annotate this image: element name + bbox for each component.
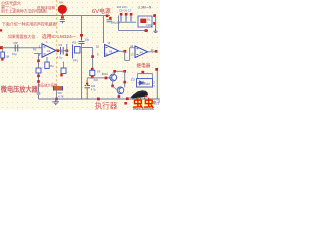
wire left drop [118,16,120,31]
wire opamp1 output [56,50,60,52]
ground symbol [52,100,59,105]
pad e1 [111,85,114,88]
wire to opamp2 [80,47,93,49]
capacitor C3 stub [63,62,65,69]
pad output14 [155,50,158,53]
svg-text:10: 10 [96,45,100,49]
capacitor C1 [15,45,18,52]
wire op2out drop [124,51,126,60]
pad on bus right [126,97,129,100]
beetle tail light [145,95,147,97]
op-amp U1C [105,41,119,57]
capacitor C3 box [61,68,66,74]
wire stub left [137,74,139,79]
relay coil [140,19,146,23]
pad cap top [86,83,88,85]
node pad [145,29,148,32]
dashed segment lower [86,80,88,99]
svg-text:4.7μ: 4.7μ [57,56,63,60]
beetle shadow [128,96,139,99]
pad e2 [118,95,121,98]
transistor Q2 [117,87,124,94]
pad cap3 [130,13,133,16]
svg-text:R3: R3 [73,41,77,45]
capacitor C2 [60,47,63,55]
svg-text:9014: 9014 [102,72,108,76]
wire stub to pin12 [130,47,135,49]
potentiometer RP1 [72,45,74,59]
svg-text:继电器: 继电器 [137,62,151,69]
svg-text:CRQ: CRQ [146,23,153,27]
svg-text:R8: R8 [97,69,101,73]
relay K1 box [138,16,152,27]
svg-text:MK: MK [59,0,63,4]
pad on trimmer stem [91,55,94,58]
svg-text:1M: 1M [5,55,10,59]
op-amp U1D [135,46,148,58]
pad on drop [123,81,126,84]
pad c1 [113,70,116,73]
pad above diode box [141,71,144,74]
microphone MK1 [58,5,67,14]
svg-text:驻极体话筒: 驻极体话筒 [37,5,55,10]
svg-text:4.7K: 4.7K [58,94,64,98]
beetle wing line [135,92,146,95]
svg-text:A3: A3 [109,50,113,54]
svg-text:如果需要放大倍: 如果需要放大倍 [8,34,35,39]
transistor Q1 [110,74,117,81]
small mark [153,29,157,33]
wire long vertical mid [81,44,83,99]
pad below trimmer [37,75,40,78]
wire mic stem [61,14,63,17]
wire filter rail [119,21,137,23]
capacitor C plates [79,42,85,44]
svg-text:4.7μ: 4.7μ [91,88,97,92]
wire base q2 [113,86,118,90]
svg-text:A1: A1 [47,49,51,53]
svg-text:C2: C2 [59,43,63,47]
pad on feedback [37,60,40,63]
pad below trimmer [91,76,94,79]
wire R9 to bus [56,90,58,99]
wire right vertical cyan [155,16,157,31]
svg-text:第一○二: 第一○二 [1,3,15,9]
svg-text:www.sochips: www.sochips [133,107,154,110]
svg-text:Y: Y [153,84,155,88]
svg-text:10μ: 10μ [85,38,90,42]
wire vertical from rail left-mid [81,16,83,35]
wire emitter q1 [112,81,114,87]
svg-text:4148: 4148 [144,82,150,86]
watermark beetle body [130,90,148,98]
pad cap2 [125,13,128,16]
wire stub up [66,44,68,55]
wire diode top [138,73,153,75]
filter cap bodies [121,16,131,22]
pad on base rail [105,77,108,80]
svg-text:电子: 电子 [153,99,160,105]
diode symbol [138,81,146,85]
svg-text:微电压放大器: 微电压放大器 [0,84,39,93]
wire stub right [151,74,153,79]
pad R9 bus [55,98,58,101]
svg-text:604: 604 [94,78,99,82]
pad left edge mid [0,29,2,31]
electrolytic capacitor C4 [106,15,109,18]
trimmer RP3 [90,70,95,75]
pad top right [153,14,156,17]
wire collector rail [114,70,124,72]
svg-text:R4: R4 [50,64,54,68]
wire to cluster [63,50,68,52]
junction node [66,49,69,52]
resistor R9 [53,87,63,91]
svg-text:3.3M—N: 3.3M—N [138,5,152,9]
wire opamp2 output [119,50,125,52]
node pad on vertical [80,34,83,37]
svg-text:C5 C6 C7: C5 C6 C7 [119,9,132,13]
pad above trimmer [91,68,94,70]
svg-text:C1: C1 [14,41,18,45]
pad below C3 [60,74,62,76]
svg-text:10μ: 10μ [12,52,17,56]
svg-text:HL: HL [147,18,151,22]
trimmer stem [92,48,94,70]
resistor R4 below opamp1 [46,57,48,62]
diode D1 box [137,79,153,87]
svg-text:执行器: 执行器 [95,100,118,110]
op-amp U1A [39,40,56,57]
junction blob [37,91,41,95]
svg-text:A4: A4 [140,51,144,55]
pad on feedback lower [37,80,40,83]
wire vertical to opamp2 [103,16,105,44]
wire top supply rail [0,15,110,17]
wire riser [129,48,131,61]
pad below mic [61,16,64,18]
wire elbow [125,59,130,61]
capacitor C7 to ground [86,78,88,85]
pad right rail top [155,68,158,71]
pad on bus [97,98,100,101]
wire base rail [87,77,110,79]
polarized capacitor segment [81,37,83,41]
wire emitter q2 [118,94,120,100]
pad R1 bottom [1,58,3,60]
wire feedback vertical [38,54,40,100]
wire ground bus [39,98,161,100]
svg-text:103: 103 [91,84,96,88]
pad c2 [123,70,126,73]
pad stub bottom [66,54,68,56]
pad below bus [124,102,127,105]
svg-text:选用IC LM324—: 选用IC LM324— [42,33,77,40]
capacitor C0 below mic [60,20,65,24]
input pad J1 [0,46,3,49]
wire opamp3 output [148,51,156,53]
svg-text:RP1: RP1 [73,59,79,63]
wire right rail to bus [156,69,158,99]
trimmer RP2 on feedback [36,68,41,73]
resistor R1 to ground [2,49,4,52]
pad mid right [153,22,156,25]
svg-text:下面介绍一种实用的声控电路图: 下面介绍一种实用的声控电路图 [2,22,57,27]
wire collector drop [124,71,126,87]
wire noninverting stub [34,53,42,55]
beetle leg marks [132,97,145,99]
svg-text:6V电源: 6V电源 [92,7,111,15]
pad cap1 [120,13,123,16]
wire lower rail [119,30,149,32]
pad output [124,50,127,53]
wire collector up [113,71,115,74]
wire input [2,47,42,49]
section divider dashed line [56,0,58,99]
junction node [57,49,60,52]
svg-text:R2: R2 [33,48,37,52]
